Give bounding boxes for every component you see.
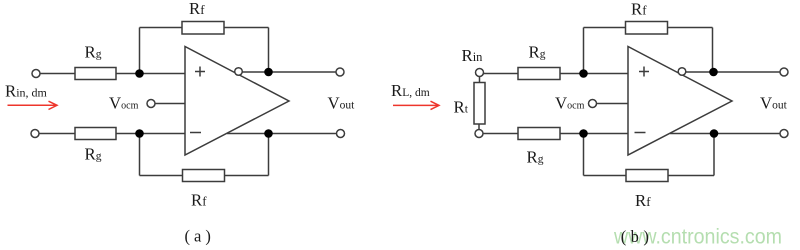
svg-text:Rf: Rf: [191, 191, 207, 210]
svg-text:Rf: Rf: [635, 191, 651, 210]
svg-text:Rf: Rf: [189, 0, 205, 18]
svg-text:(b): (b): [621, 227, 654, 246]
svg-text:(a): (a): [185, 227, 215, 246]
svg-text:Rf: Rf: [631, 0, 647, 18]
